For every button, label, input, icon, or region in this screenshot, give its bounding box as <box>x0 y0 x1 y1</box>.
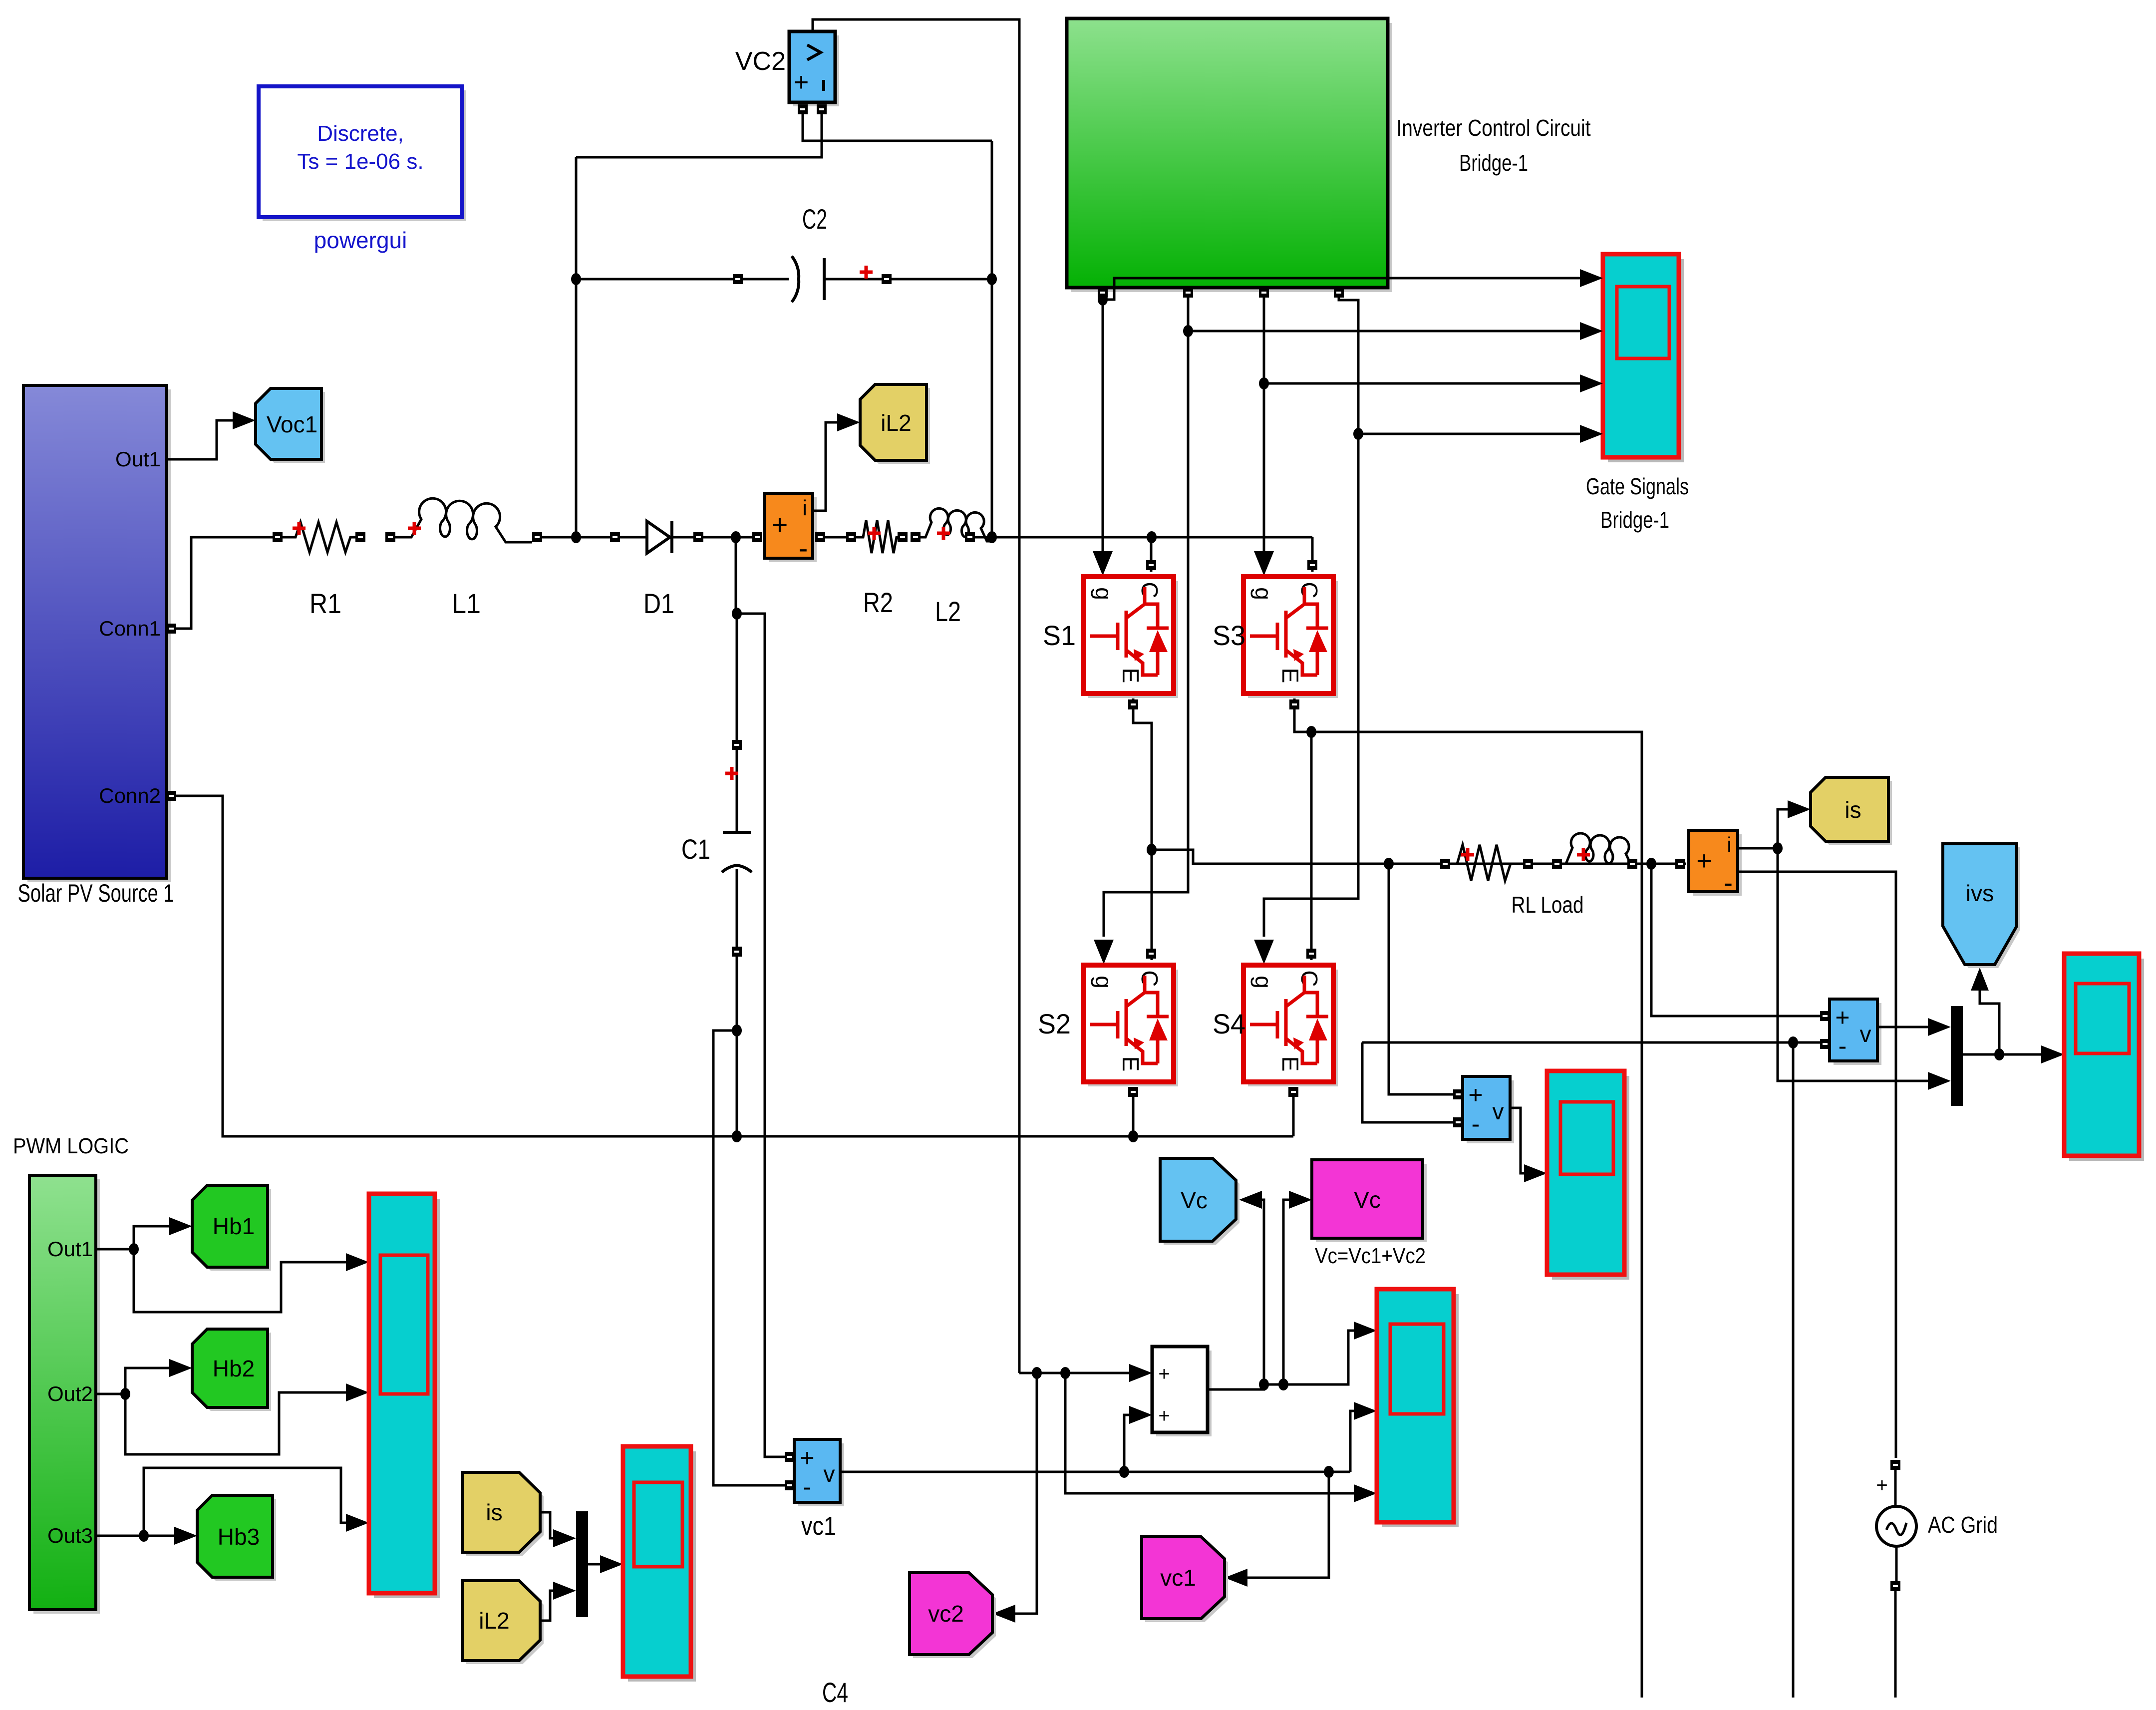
wire L2 to bridge rail <box>975 536 1312 539</box>
wire sum output to Vc tags and scope2 <box>1208 1200 1264 1389</box>
C4 scope <box>623 1446 696 1682</box>
svg-text:iL2: iL2 <box>479 1608 509 1634</box>
From tag is <box>463 1472 544 1556</box>
wires from tags to mux1 <box>540 1512 553 1621</box>
svg-text:Out1: Out1 <box>47 1237 93 1261</box>
svg-text:Vc=Vc1+Vc2: Vc=Vc1+Vc2 <box>1315 1244 1426 1268</box>
svg-text:powergui: powergui <box>314 227 407 253</box>
diode D1 <box>610 532 620 542</box>
Gate Signals Bridge-1 scope <box>1603 254 1684 462</box>
svg-text:AC Grid: AC Grid <box>1928 1512 1998 1538</box>
svg-text:-: - <box>803 1473 812 1501</box>
svg-text:+: + <box>1468 1081 1483 1109</box>
Scope4 <box>1547 1071 1629 1280</box>
Solar PV Source 1 block <box>18 385 174 907</box>
voltage measurement vc1 <box>794 1439 844 1506</box>
wire L1 to D1 with node to C2 <box>542 536 613 539</box>
svg-text:Out3: Out3 <box>47 1524 93 1547</box>
svg-text:Out1: Out1 <box>115 447 161 471</box>
wire CM2 minus to AC grid <box>1738 872 1896 1458</box>
wire to vc2 goto tag <box>1015 1373 1037 1614</box>
svg-text:C1: C1 <box>681 833 710 865</box>
wire Out2 to Hb2 and scope <box>96 1368 346 1454</box>
Goto tag is <box>1811 777 1892 845</box>
svg-text:vc1: vc1 <box>1160 1565 1196 1591</box>
svg-text:Gate Signals: Gate Signals <box>1586 473 1689 499</box>
wire sum input1 from vc2 top rail <box>1019 1372 1129 1374</box>
svg-text:v: v <box>1860 1021 1871 1047</box>
sum block <box>1152 1347 1212 1436</box>
svg-text:S3: S3 <box>1213 620 1245 651</box>
svg-text:vc2: vc2 <box>928 1601 964 1627</box>
PWM scope <box>369 1194 440 1598</box>
svg-text:Hb1: Hb1 <box>213 1213 255 1239</box>
svg-text:Discrete,: Discrete, <box>317 121 404 146</box>
svg-text:R2: R2 <box>863 587 893 618</box>
Goto tag iL2 <box>860 384 930 464</box>
wire C1 bottom branch to vc1 minus <box>713 1030 788 1485</box>
Goto tag Hb3 <box>197 1495 276 1581</box>
svg-text:+: + <box>1158 1405 1170 1427</box>
wire midpoint A to RL rail <box>1152 850 1686 864</box>
svg-text:i: i <box>802 496 807 520</box>
svg-text:Solar PV Source 1: Solar PV Source 1 <box>18 879 174 907</box>
wire gate1 to S1 and scope <box>1103 278 1580 552</box>
svg-text:v: v <box>824 1461 835 1487</box>
Goto tag Voc1 <box>256 388 325 463</box>
svg-text:-: - <box>1472 1110 1480 1138</box>
svg-text:D1: D1 <box>643 588 674 619</box>
svg-text:is: is <box>486 1499 502 1525</box>
svg-text:+: + <box>1876 1474 1887 1496</box>
svg-text:+: + <box>794 68 809 97</box>
svg-text:Hb2: Hb2 <box>213 1356 255 1381</box>
Goto tag vc2 magenta <box>910 1573 996 1658</box>
IGBT S1 <box>1084 577 1178 698</box>
svg-text:Bridge-1: Bridge-1 <box>1600 507 1669 533</box>
wire S2 E to bottom rail <box>1132 1087 1135 1136</box>
svg-text:Conn1: Conn1 <box>99 617 161 640</box>
resistor R1 <box>273 532 283 542</box>
svg-text:Conn2: Conn2 <box>99 784 161 807</box>
wire V1 plus from RL rail <box>1389 864 1453 1094</box>
wire mux1 to C4 scope <box>588 1563 600 1566</box>
wire V1 output to scope4 <box>1510 1108 1524 1173</box>
svg-text:Voc1: Voc1 <box>267 411 317 437</box>
RL Load resistor <box>1440 859 1450 869</box>
wire to sum input2 <box>1124 1415 1129 1472</box>
voltage measurement V2 <box>1830 999 1881 1065</box>
IGBT S3 <box>1243 577 1338 698</box>
svg-text:Hb3: Hb3 <box>218 1524 260 1550</box>
wire C1 top branch to vc1 plus <box>737 614 788 1457</box>
capacitor C2 <box>576 278 735 281</box>
IGBT S4 <box>1243 965 1338 1086</box>
svg-text:+: + <box>772 509 788 540</box>
wire gate2 to S2 and scope <box>1104 298 1580 937</box>
wire to scope2 input3 <box>1065 1373 1354 1493</box>
current measurement CM1 <box>752 532 762 542</box>
svg-text:S4: S4 <box>1213 1008 1245 1039</box>
Goto tag Hb2 <box>192 1329 271 1411</box>
IGBT S2 <box>1084 965 1178 1086</box>
wire gate4 to S4 and scope <box>1264 298 1580 937</box>
wire V2 plus from RL rail node <box>1651 864 1820 1016</box>
voltage measurement V1 <box>1463 1076 1514 1143</box>
svg-text:R1: R1 <box>309 588 341 619</box>
svg-text:C4: C4 <box>822 1677 848 1708</box>
wire mux2 output to ivs and scope3 <box>1963 986 2041 1054</box>
AC Grid source <box>1890 1460 1900 1470</box>
wire VC2 plus to C2 right <box>803 114 992 141</box>
svg-text:+: + <box>1696 846 1712 876</box>
Goto tag Hb1 <box>192 1185 271 1271</box>
wire Out1 to Hb1 and scope <box>96 1226 346 1312</box>
RL Load inductor <box>1552 859 1562 869</box>
current measurement CM2 <box>1689 830 1742 898</box>
wire VC2 minus to C2 left <box>576 114 822 157</box>
svg-text:+: + <box>800 1444 814 1472</box>
Goto tag Vc blue <box>1160 1158 1239 1245</box>
wire CM1 i output to iL2 <box>813 422 837 511</box>
svg-text:i: i <box>1727 833 1731 856</box>
svg-text:-: - <box>1839 1032 1847 1060</box>
svg-text:vc1: vc1 <box>801 1512 836 1541</box>
wire C2 right leg <box>991 141 993 537</box>
svg-text:Bridge-1: Bridge-1 <box>1459 150 1528 176</box>
wire Out1 to Voc1 <box>167 420 233 459</box>
svg-text:Ts = 1e-06 s.: Ts = 1e-06 s. <box>297 149 423 174</box>
wire S3 E to midpoint B <box>1294 698 1642 1698</box>
svg-text:S2: S2 <box>1038 1008 1071 1039</box>
wire vc1 output rail <box>840 1411 1354 1472</box>
wire Out3 to Hb3 and scope <box>96 1468 346 1536</box>
From tag iL2 <box>463 1581 544 1664</box>
Goto tag vc1 magenta <box>1142 1537 1228 1622</box>
Inverter Control Circuit Bridge-1 block <box>1067 18 1392 292</box>
wire gate3 to S3 and scope <box>1264 298 1580 552</box>
svg-text:+: + <box>1835 1004 1849 1031</box>
resistor R2 <box>825 536 849 539</box>
wire Conn1 to R1 <box>167 537 276 629</box>
Scope3 <box>2064 954 2144 1161</box>
svg-text:v: v <box>1493 1098 1504 1124</box>
svg-text:-: - <box>1724 868 1733 898</box>
Scope2 Vc scope <box>1377 1289 1459 1527</box>
wire to vc1 goto tag <box>1247 1472 1329 1578</box>
wire C2 left leg <box>575 157 578 537</box>
mux2 <box>1951 1006 1963 1106</box>
svg-text:Inverter Control Circuit: Inverter Control Circuit <box>1397 115 1591 141</box>
wire CM2 i output to is tag and mux <box>1738 809 1928 1081</box>
svg-text:-: - <box>799 532 808 564</box>
wire S2 C port <box>1146 949 1156 959</box>
svg-text:iL2: iL2 <box>881 410 911 436</box>
wire midpoint B to S4 C <box>1310 732 1313 960</box>
svg-text:Vc: Vc <box>1354 1187 1381 1213</box>
wire Conn2 to bottom rail <box>167 796 1293 1136</box>
Goto tag ivs <box>1943 844 2020 968</box>
wire S1 E to midpoint A <box>1133 698 1152 960</box>
reference net wire <box>1362 1042 1823 1698</box>
voltage measurement VC2 <box>789 31 839 106</box>
mux1 <box>576 1511 588 1617</box>
svg-text:L2: L2 <box>935 596 961 627</box>
svg-text:is: is <box>1845 797 1861 823</box>
wire S4 E to bottom rail <box>1292 1087 1295 1136</box>
svg-text:C2: C2 <box>802 203 827 235</box>
inductor L1 <box>385 532 395 542</box>
wire D1 to CM1, node to C1 <box>703 536 756 539</box>
svg-text:L1: L1 <box>452 588 481 619</box>
svg-text:RL Load: RL Load <box>1512 892 1584 918</box>
wires and blocks inserted below <box>18 19 1313 1485</box>
wire S3 C to DC rail corner <box>1311 537 1314 572</box>
wire VC2 output to top rail <box>813 19 1019 1373</box>
capacitor C1 <box>736 537 737 742</box>
Vc display block magenta <box>1312 1160 1427 1242</box>
svg-text:VC2: VC2 <box>735 47 786 76</box>
svg-text:PWM LOGIC: PWM LOGIC <box>13 1134 129 1158</box>
svg-text:Out2: Out2 <box>47 1382 93 1405</box>
powergui block <box>259 86 466 253</box>
wire S1 C to DC rail <box>1150 537 1153 572</box>
PWM LOGIC block <box>29 1175 100 1614</box>
svg-text:+: + <box>1158 1363 1170 1385</box>
inductor L2 <box>911 532 921 542</box>
svg-text:ivs: ivs <box>1966 880 1994 906</box>
wire V2 output to mux2 <box>1877 1026 1928 1028</box>
svg-text:S1: S1 <box>1043 620 1076 651</box>
svg-text:Vc: Vc <box>1181 1187 1208 1213</box>
